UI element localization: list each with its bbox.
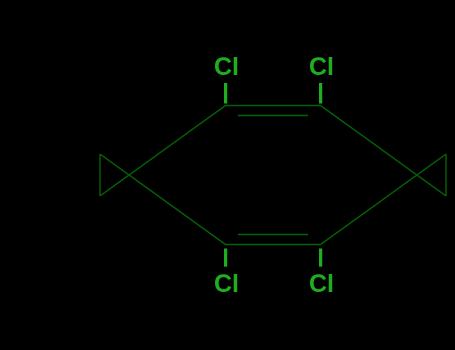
svg-text:Cl: Cl	[214, 270, 239, 298]
svg-text:Cl: Cl	[309, 270, 334, 298]
svg-text:Cl: Cl	[214, 53, 239, 81]
svg-text:Cl: Cl	[309, 53, 334, 81]
